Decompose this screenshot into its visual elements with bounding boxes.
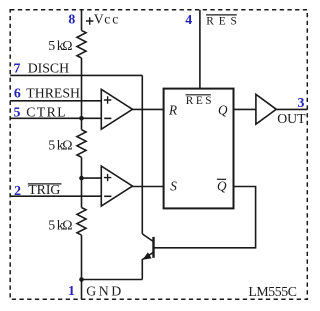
wire divider 1/3 node to comparator B plus [82, 177, 102, 179]
svg-text:5: 5 [14, 104, 21, 119]
svg-text:5kΩ: 5kΩ [48, 38, 72, 53]
svg-text:Q: Q [218, 102, 228, 117]
+Vcc label [86, 17, 93, 24]
resistor R1 5k (top) [77, 30, 86, 58]
wire U2 output to flip-flop S input [133, 186, 164, 188]
resistor R3 5k (bottom) [77, 208, 86, 236]
svg-text:THRESH: THRESH [26, 86, 80, 101]
wire rail R2 to R3 (1/3 Vcc node) [81, 157, 83, 207]
wire Q output to buffer [234, 108, 256, 110]
op-amp U2 minus sign [104, 195, 111, 197]
svg-text:LM555C: LM555C [248, 284, 297, 299]
transistor Q1 emitter lead [141, 259, 143, 280]
svg-text:GND: GND [86, 283, 121, 298]
wire rail R1 to R2 (2/3 Vcc node) [81, 58, 83, 130]
transistor Q1 base bar [152, 237, 154, 258]
svg-text:2: 2 [14, 183, 21, 198]
transistor Q1 emitter arrowhead [144, 253, 151, 259]
buffer U4 triangle [256, 94, 276, 124]
wire RES pin 4 stub to flip-flop [199, 10, 201, 89]
node GND junction dot [79, 277, 84, 282]
svg-text:R: R [168, 102, 177, 117]
svg-text:6: 6 [14, 86, 21, 101]
transistor Q1 collector diagonal [142, 234, 153, 242]
transistor Q1 emitter diagonal [143, 252, 154, 259]
svg-text:5kΩ: 5kΩ [48, 218, 72, 233]
svg-text:CTRL: CTRL [26, 104, 65, 119]
op-amp U2 comparator B triangle [101, 166, 132, 206]
wire DISCH vertical rail to transistor collector [141, 75, 143, 234]
wire U1 output to flip-flop R input [133, 108, 164, 110]
svg-text:OUT: OUT [277, 111, 306, 126]
svg-text:3: 3 [298, 95, 305, 110]
svg-text:Q: Q [217, 179, 227, 194]
op-amp U1 comparator A triangle [101, 89, 132, 129]
wire CTRL pin 5 to comparator minus [10, 117, 101, 119]
op-amp U1 minus sign [104, 117, 111, 119]
svg-text:RES: RES [186, 95, 212, 107]
svg-text:DISCH: DISCH [28, 61, 69, 76]
node 1/3 divider junction dot [79, 176, 84, 181]
op-amp U2 plus sign [104, 174, 111, 181]
wire DISCH pin 7 horizontal [10, 74, 142, 76]
svg-text:5kΩ: 5kΩ [48, 138, 72, 153]
wire TRIG pin 2 [10, 195, 101, 197]
wire GND pin 1 horizontal [82, 279, 143, 281]
op-amp U1 plus sign [104, 96, 111, 103]
wire OUT pin 3 [276, 108, 307, 110]
svg-text:8: 8 [68, 11, 75, 26]
flip-flop U3 box [164, 89, 234, 209]
svg-text:1: 1 [68, 283, 75, 298]
node CTRL junction dot [79, 116, 84, 121]
svg-text:S: S [170, 179, 177, 194]
svg-text:4: 4 [185, 12, 192, 27]
wire Qbar feedback to transistor base [154, 187, 256, 248]
wire THRESH pin 6 [10, 100, 101, 102]
svg-text:7: 7 [14, 61, 21, 76]
svg-text:Vcc: Vcc [94, 11, 119, 26]
svg-text:RES: RES [206, 16, 237, 28]
wire rail R3 to GND node and pin 1 stub [81, 235, 83, 299]
resistor R2 5k (middle) [77, 130, 86, 158]
wire pin 8 stub (+Vcc) [81, 10, 83, 31]
